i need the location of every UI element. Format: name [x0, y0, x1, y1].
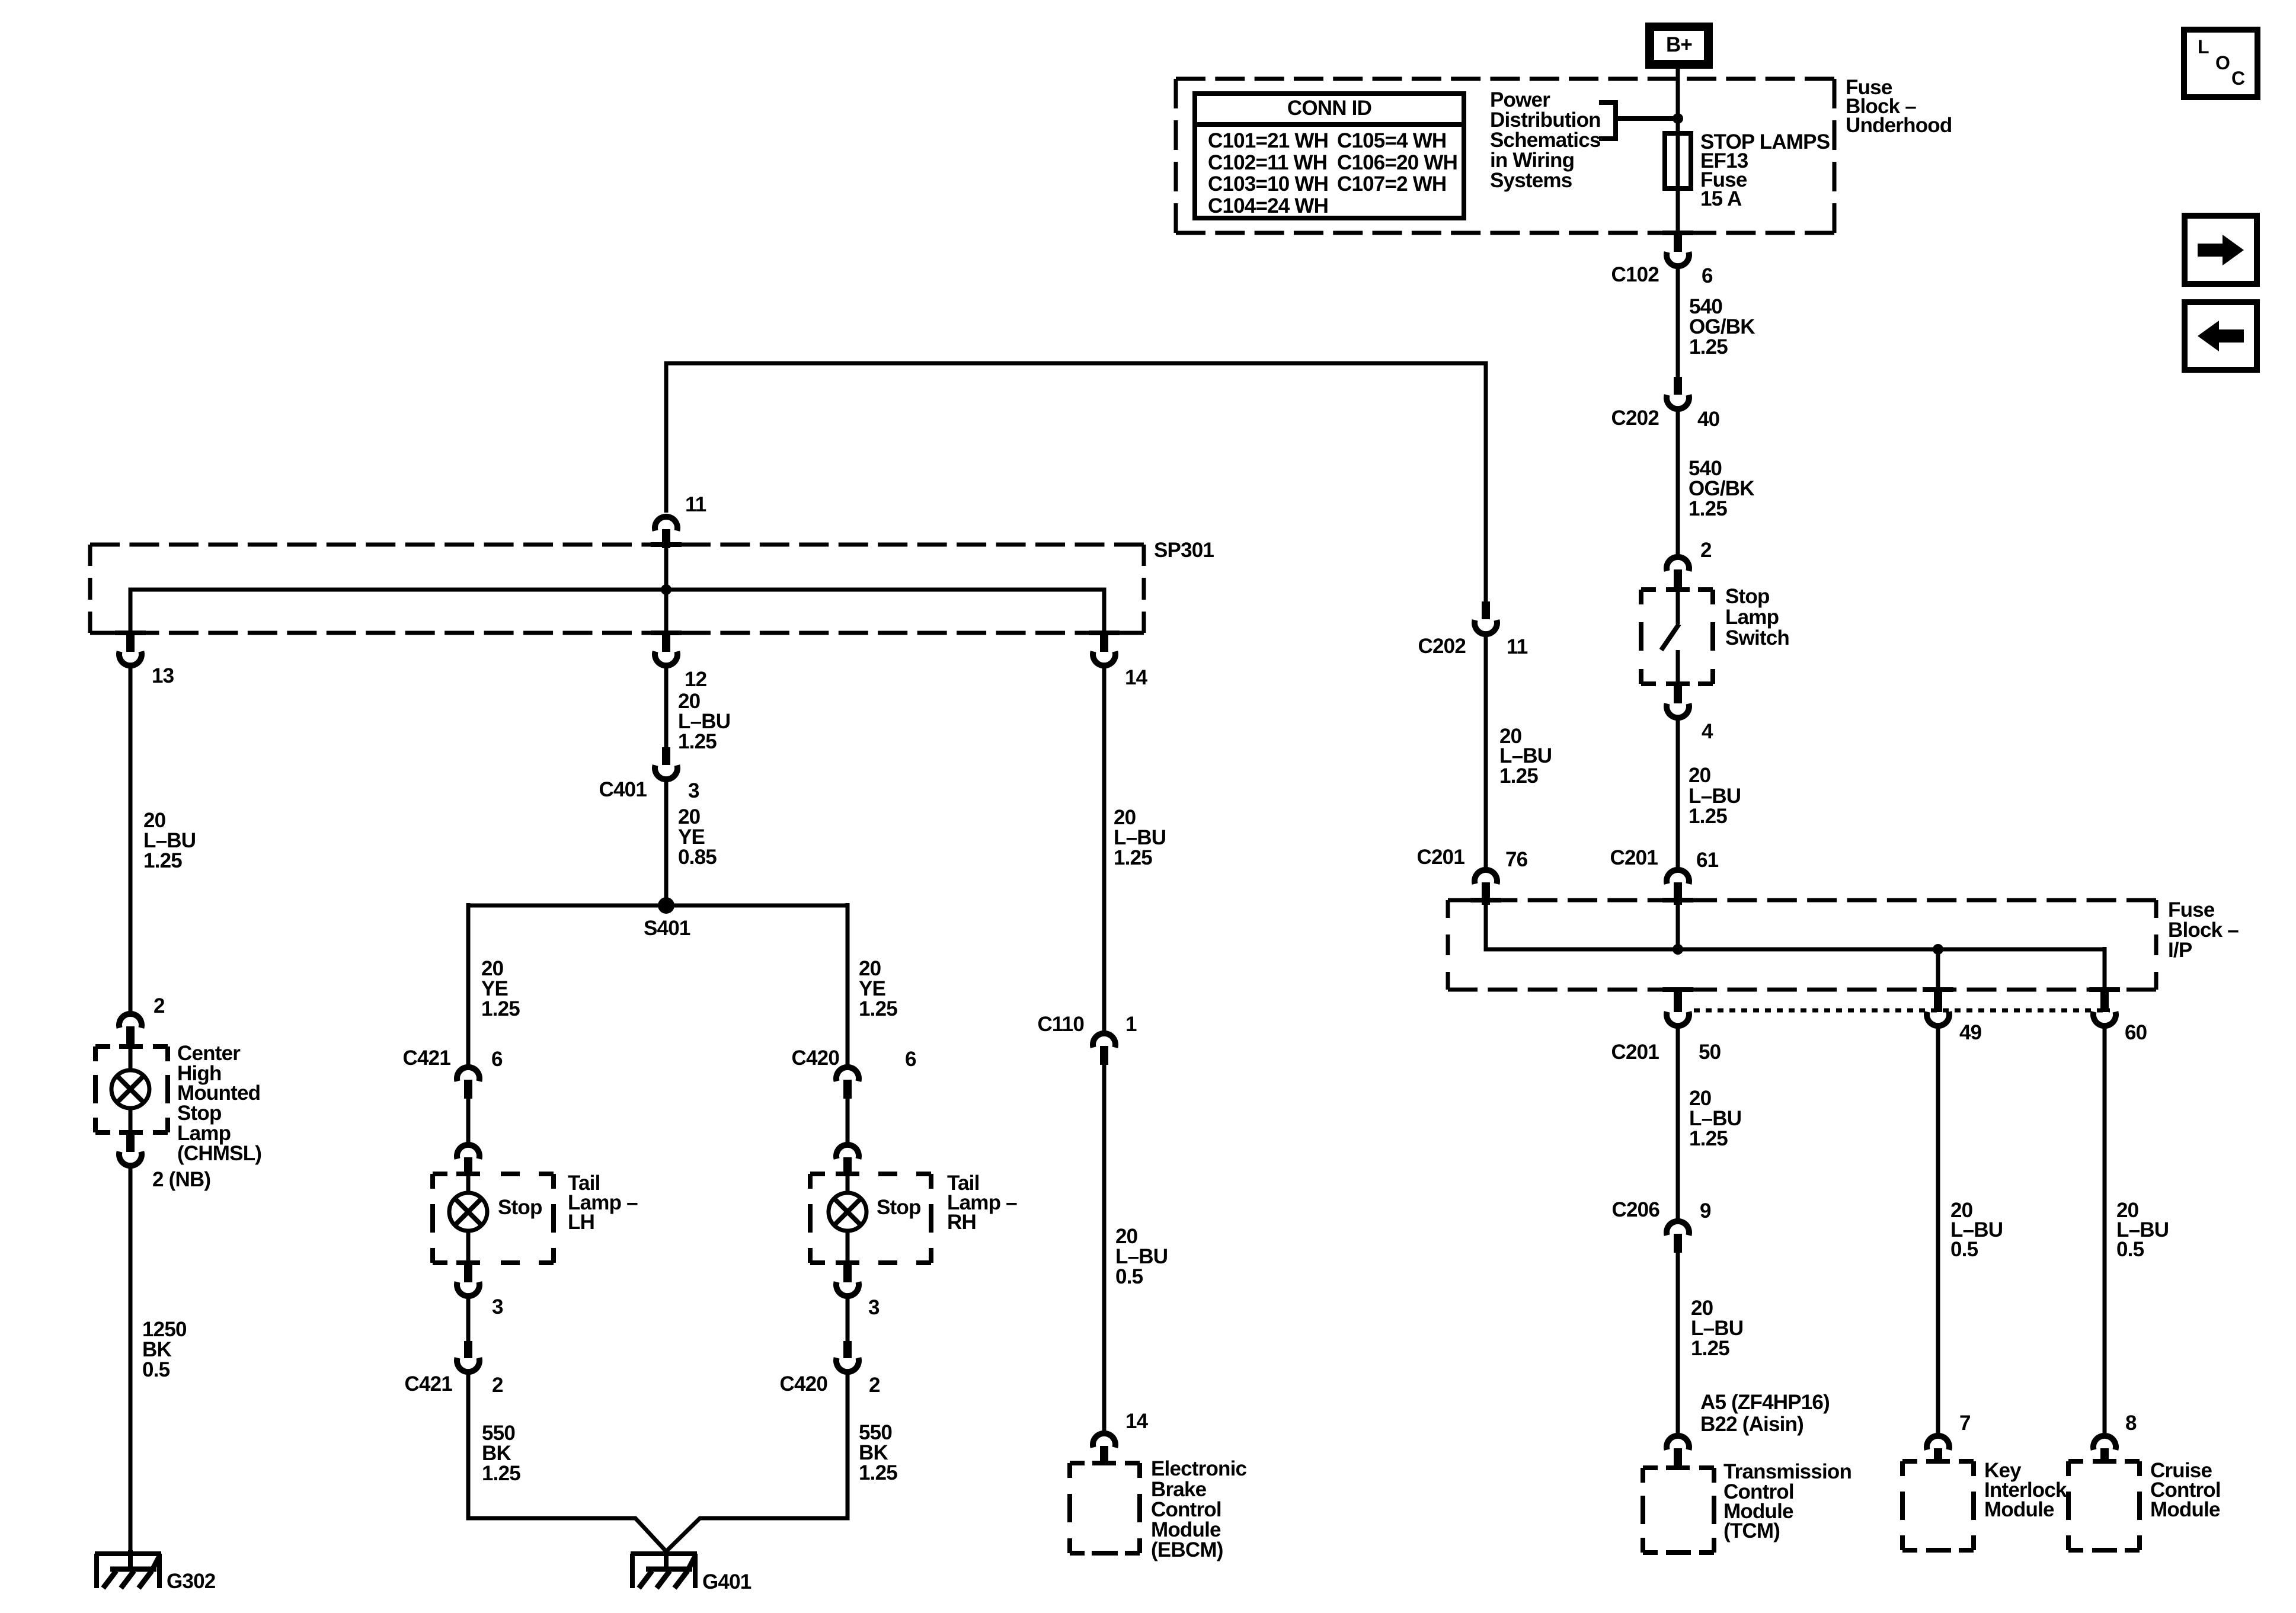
svg-text:14: 14: [1125, 1410, 1149, 1433]
svg-text:0.5: 0.5: [1950, 1238, 1978, 1261]
svg-text:C421: C421: [403, 1046, 451, 1070]
svg-text:1.25: 1.25: [1114, 846, 1152, 869]
wire bus corner down to pin 60: [2103, 947, 2107, 991]
wire C201-61 into fuse block I/P: [1676, 905, 1680, 949]
svg-text:C420: C420: [780, 1372, 828, 1396]
connector pin 49: [1923, 987, 1953, 992]
ground G302: [95, 1554, 161, 1588]
node bus junction at TCM feed: [1673, 944, 1683, 955]
svg-text:(TCM): (TCM): [1723, 1519, 1780, 1542]
wire C201-76 to bus: [1486, 905, 2105, 949]
connector C421 pin 2: [464, 1341, 472, 1358]
svg-text:C106=20 WH: C106=20 WH: [1337, 151, 1457, 174]
wire 20 YE 1.25 left branch: [466, 903, 471, 1065]
wire 550 BK 1.25 LH to ground: [468, 1374, 666, 1551]
svg-text:C206: C206: [1612, 1198, 1660, 1221]
fuse EF13 STOP LAMPS 15 A: [1665, 133, 1691, 188]
tail lamp LH inline connector: [457, 1145, 479, 1159]
svg-text:1.25: 1.25: [859, 997, 897, 1020]
svg-text:1.25: 1.25: [143, 849, 182, 872]
svg-text:C102=11 WH: C102=11 WH: [1208, 151, 1327, 174]
svg-text:I/P: I/P: [2168, 939, 2192, 962]
svg-text:Module: Module: [2150, 1498, 2220, 1521]
CHMSL pin 2 (NB): [126, 1132, 135, 1152]
svg-text:A5 (ZF4HP16): A5 (ZF4HP16): [1700, 1391, 1830, 1414]
connector C102 pin 6: [1662, 231, 1693, 235]
connector pin 60: [2089, 987, 2120, 992]
wire fuse to C102: [1676, 188, 1680, 234]
fuse block I/P inner dotted boundary: [1694, 1009, 2110, 1013]
Electronic Brake Control Module box: [1070, 1463, 1140, 1553]
svg-text:1.25: 1.25: [1499, 764, 1538, 788]
wire 20 L-BU 1.25 (C201-50 to C206): [1676, 1028, 1680, 1220]
svg-text:B+: B+: [1666, 33, 1692, 56]
svg-text:(EBCM): (EBCM): [1151, 1538, 1223, 1561]
LOC legend box: [2184, 30, 2257, 97]
SP301 pin 14: [1089, 631, 1120, 635]
wire 20 YE 1.25 right branch: [846, 903, 850, 1065]
svg-text:15 A: 15 A: [1700, 187, 1742, 210]
wire 20 L-BU 1.25 (SP301-13 to CHMSL): [129, 667, 133, 1012]
CONN ID table: [1195, 94, 1464, 218]
svg-text:3: 3: [688, 779, 699, 802]
wire 550 BK 1.25 RH to ground: [666, 1374, 848, 1551]
svg-text:2 (NB): 2 (NB): [152, 1168, 210, 1191]
svg-text:Switch: Switch: [1725, 626, 1789, 649]
svg-text:C420: C420: [792, 1046, 840, 1070]
Fuse Block - I/P dashed box: [1448, 898, 2156, 902]
svg-text:7: 7: [1959, 1412, 1971, 1435]
svg-text:1.25: 1.25: [1689, 335, 1728, 359]
wire main feed (switch output bus): [666, 363, 1486, 603]
svg-text:1.25: 1.25: [1689, 1127, 1728, 1150]
svg-text:6: 6: [491, 1048, 503, 1071]
svg-text:4: 4: [1702, 720, 1713, 743]
svg-text:40: 40: [1697, 408, 1720, 431]
svg-text:C201: C201: [1610, 846, 1658, 869]
node SP301 splice junction: [661, 584, 671, 595]
navigation arrow previous box: [2185, 302, 2257, 370]
Key Interlock Module box: [1902, 1461, 1974, 1550]
connector C401 pin 3: [662, 747, 670, 765]
svg-text:SP301: SP301: [1154, 539, 1214, 562]
svg-text:1.25: 1.25: [481, 997, 520, 1020]
svg-text:LH: LH: [568, 1211, 594, 1234]
svg-text:B22 (Aisin): B22 (Aisin): [1700, 1413, 1803, 1436]
svg-text:2: 2: [154, 994, 165, 1017]
svg-text:14: 14: [1125, 666, 1148, 689]
wire 20 L-BU 1.25 (C206 to TCM): [1676, 1253, 1680, 1433]
splice S401: [658, 897, 674, 914]
svg-text:6: 6: [1702, 264, 1713, 287]
svg-text:3: 3: [868, 1296, 880, 1319]
connector C202 pin 11: [1482, 601, 1490, 619]
svg-text:3: 3: [492, 1295, 503, 1318]
wire 20 L-BU 0.5 (to key interlock): [1936, 1028, 1940, 1433]
svg-text:2: 2: [492, 1374, 503, 1397]
ground G401: [631, 1554, 697, 1588]
svg-text:C201: C201: [1611, 1041, 1659, 1064]
svg-text:S401: S401: [644, 917, 690, 940]
wire 540 OG/BK 1.25 (C102 to C202): [1676, 268, 1680, 379]
svg-text:C101=21 WH: C101=21 WH: [1208, 129, 1328, 152]
node power distribution junction: [1673, 113, 1683, 124]
svg-text:13: 13: [152, 664, 174, 687]
battery B+ terminal: [1645, 23, 1713, 69]
wire tail lamp RH to C420-2: [846, 1298, 850, 1342]
tail lamp LH pin 3: [464, 1263, 472, 1282]
stop lamp switch contacts and blade: [1676, 591, 1680, 624]
TCM connector pin: [1667, 1436, 1689, 1450]
tail lamp RH pin 3: [843, 1263, 852, 1282]
Transmission Control Module (TCM) box: [1643, 1468, 1714, 1553]
SP301 pin 12: [651, 631, 682, 635]
svg-text:61: 61: [1696, 849, 1719, 872]
svg-text:50: 50: [1699, 1041, 1721, 1064]
wire junction down to pin 49: [1936, 949, 1940, 991]
svg-text:8: 8: [2125, 1412, 2137, 1435]
svg-text:1.25: 1.25: [678, 730, 717, 753]
connector C202 pin 40: [1674, 377, 1682, 395]
svg-text:(CHMSL): (CHMSL): [177, 1142, 261, 1165]
callout bracket Power Distribution Schematics: [1599, 103, 1678, 139]
svg-text:G401: G401: [702, 1570, 752, 1593]
svg-text:CONN ID: CONN ID: [1287, 97, 1371, 120]
svg-text:9: 9: [1700, 1199, 1711, 1222]
stop lamp switch pin 4: [1674, 684, 1682, 703]
wire tail lamp LH to C421-2: [466, 1298, 471, 1342]
svg-text:6: 6: [905, 1048, 916, 1071]
svg-text:C110: C110: [1037, 1013, 1084, 1036]
svg-text:L: L: [2198, 36, 2209, 57]
node bus junction at key interlock feed: [1933, 944, 1943, 955]
svg-text:49: 49: [1959, 1021, 1982, 1044]
svg-text:C103=10 WH: C103=10 WH: [1208, 172, 1328, 196]
wire SP301 internal bus: [664, 548, 669, 590]
svg-text:RH: RH: [947, 1211, 976, 1234]
svg-text:C107=2 WH: C107=2 WH: [1337, 172, 1446, 196]
svg-text:Electronic: Electronic: [1151, 1457, 1247, 1480]
svg-text:G302: G302: [167, 1570, 216, 1593]
svg-text:C201: C201: [1417, 846, 1465, 869]
Tail Lamp - LH box: [433, 1174, 554, 1263]
svg-text:1.25: 1.25: [482, 1462, 520, 1485]
connector C420 pin 2: [843, 1341, 852, 1358]
wire 20 L-BU 0.5 (to cruise control): [2103, 1028, 2107, 1433]
svg-text:C105=4 WH: C105=4 WH: [1337, 129, 1446, 152]
Fuse Block - Underhood dashed box: [1176, 77, 1834, 81]
svg-text:11: 11: [1507, 635, 1528, 658]
svg-text:60: 60: [2125, 1021, 2147, 1044]
stop bulb RH: [846, 1176, 850, 1193]
stop lamp switch box: [1641, 590, 1713, 684]
SP301 pin 13: [115, 631, 146, 635]
svg-text:C102: C102: [1611, 263, 1659, 286]
splice pack SP301 dashed box: [90, 543, 1144, 547]
wire 20 L-BU 1.25 (SP301-14 to C110): [1102, 667, 1107, 1032]
wire 540 OG/BK 1.25 (C202 to stop lamp switch): [1676, 411, 1680, 555]
svg-text:O: O: [2215, 52, 2230, 73]
svg-text:1.25: 1.25: [859, 1461, 897, 1484]
svg-text:Lamp: Lamp: [1725, 606, 1779, 629]
wire 20 L-BU 0.5 (C110 to EBCM): [1102, 1065, 1107, 1430]
CHMSL stop bulb: [129, 1048, 133, 1070]
svg-text:Stop: Stop: [498, 1196, 542, 1219]
svg-text:0.5: 0.5: [142, 1358, 170, 1381]
stop bulb LH: [466, 1176, 471, 1193]
wire C420 to tail lamp RH: [846, 1099, 850, 1143]
svg-text:12: 12: [685, 668, 707, 691]
Cruise Control Module box: [2068, 1461, 2140, 1550]
svg-text:2: 2: [869, 1374, 880, 1397]
svg-text:0.5: 0.5: [1115, 1265, 1143, 1288]
Center High Mounted Stop Lamp box: [95, 1046, 168, 1132]
svg-text:C104=24 WH: C104=24 WH: [1208, 194, 1328, 217]
wire B+ to fuse: [1676, 68, 1680, 190]
svg-text:1.25: 1.25: [1689, 497, 1727, 520]
svg-text:Stop: Stop: [1725, 585, 1770, 608]
svg-text:1.25: 1.25: [1689, 805, 1727, 828]
Tail Lamp - RH box: [810, 1174, 931, 1263]
wire 20 YE 0.85 (C401 to S401): [664, 781, 669, 905]
svg-text:0.5: 0.5: [2116, 1238, 2144, 1261]
svg-text:11: 11: [685, 493, 706, 516]
svg-text:1.25: 1.25: [1691, 1337, 1729, 1360]
wire 20 L-BU 1.25 (switch to C201-61): [1676, 719, 1680, 868]
svg-text:C421: C421: [405, 1372, 453, 1396]
svg-text:76: 76: [1505, 848, 1528, 871]
svg-text:Stop: Stop: [877, 1196, 921, 1219]
svg-text:C401: C401: [599, 778, 647, 801]
svg-text:2: 2: [1700, 539, 1712, 562]
wire S401 branch bus: [468, 904, 848, 908]
wire 20 L-BU 1.25 (SP301-12 to C401): [664, 667, 669, 748]
svg-text:Module: Module: [1984, 1498, 2054, 1521]
connector C201 pin 50: [1662, 987, 1693, 992]
svg-text:Underhood: Underhood: [1846, 114, 1952, 137]
svg-text:1: 1: [1125, 1013, 1137, 1036]
svg-text:0.85: 0.85: [678, 846, 717, 869]
svg-text:20: 20: [1689, 764, 1711, 787]
wire 20 L-BU 1.25 (C202-11 to C201-76): [1484, 636, 1488, 868]
navigation arrow next box: [2185, 216, 2257, 284]
svg-text:C: C: [2231, 68, 2245, 89]
svg-text:C202: C202: [1611, 407, 1659, 430]
svg-text:Systems: Systems: [1490, 169, 1572, 192]
svg-text:C202: C202: [1418, 635, 1466, 658]
wire C421 to tail lamp LH: [466, 1099, 471, 1143]
wire 1250 BK 0.5 to G302: [129, 1167, 133, 1554]
tail lamp RH inline connector: [836, 1145, 859, 1159]
